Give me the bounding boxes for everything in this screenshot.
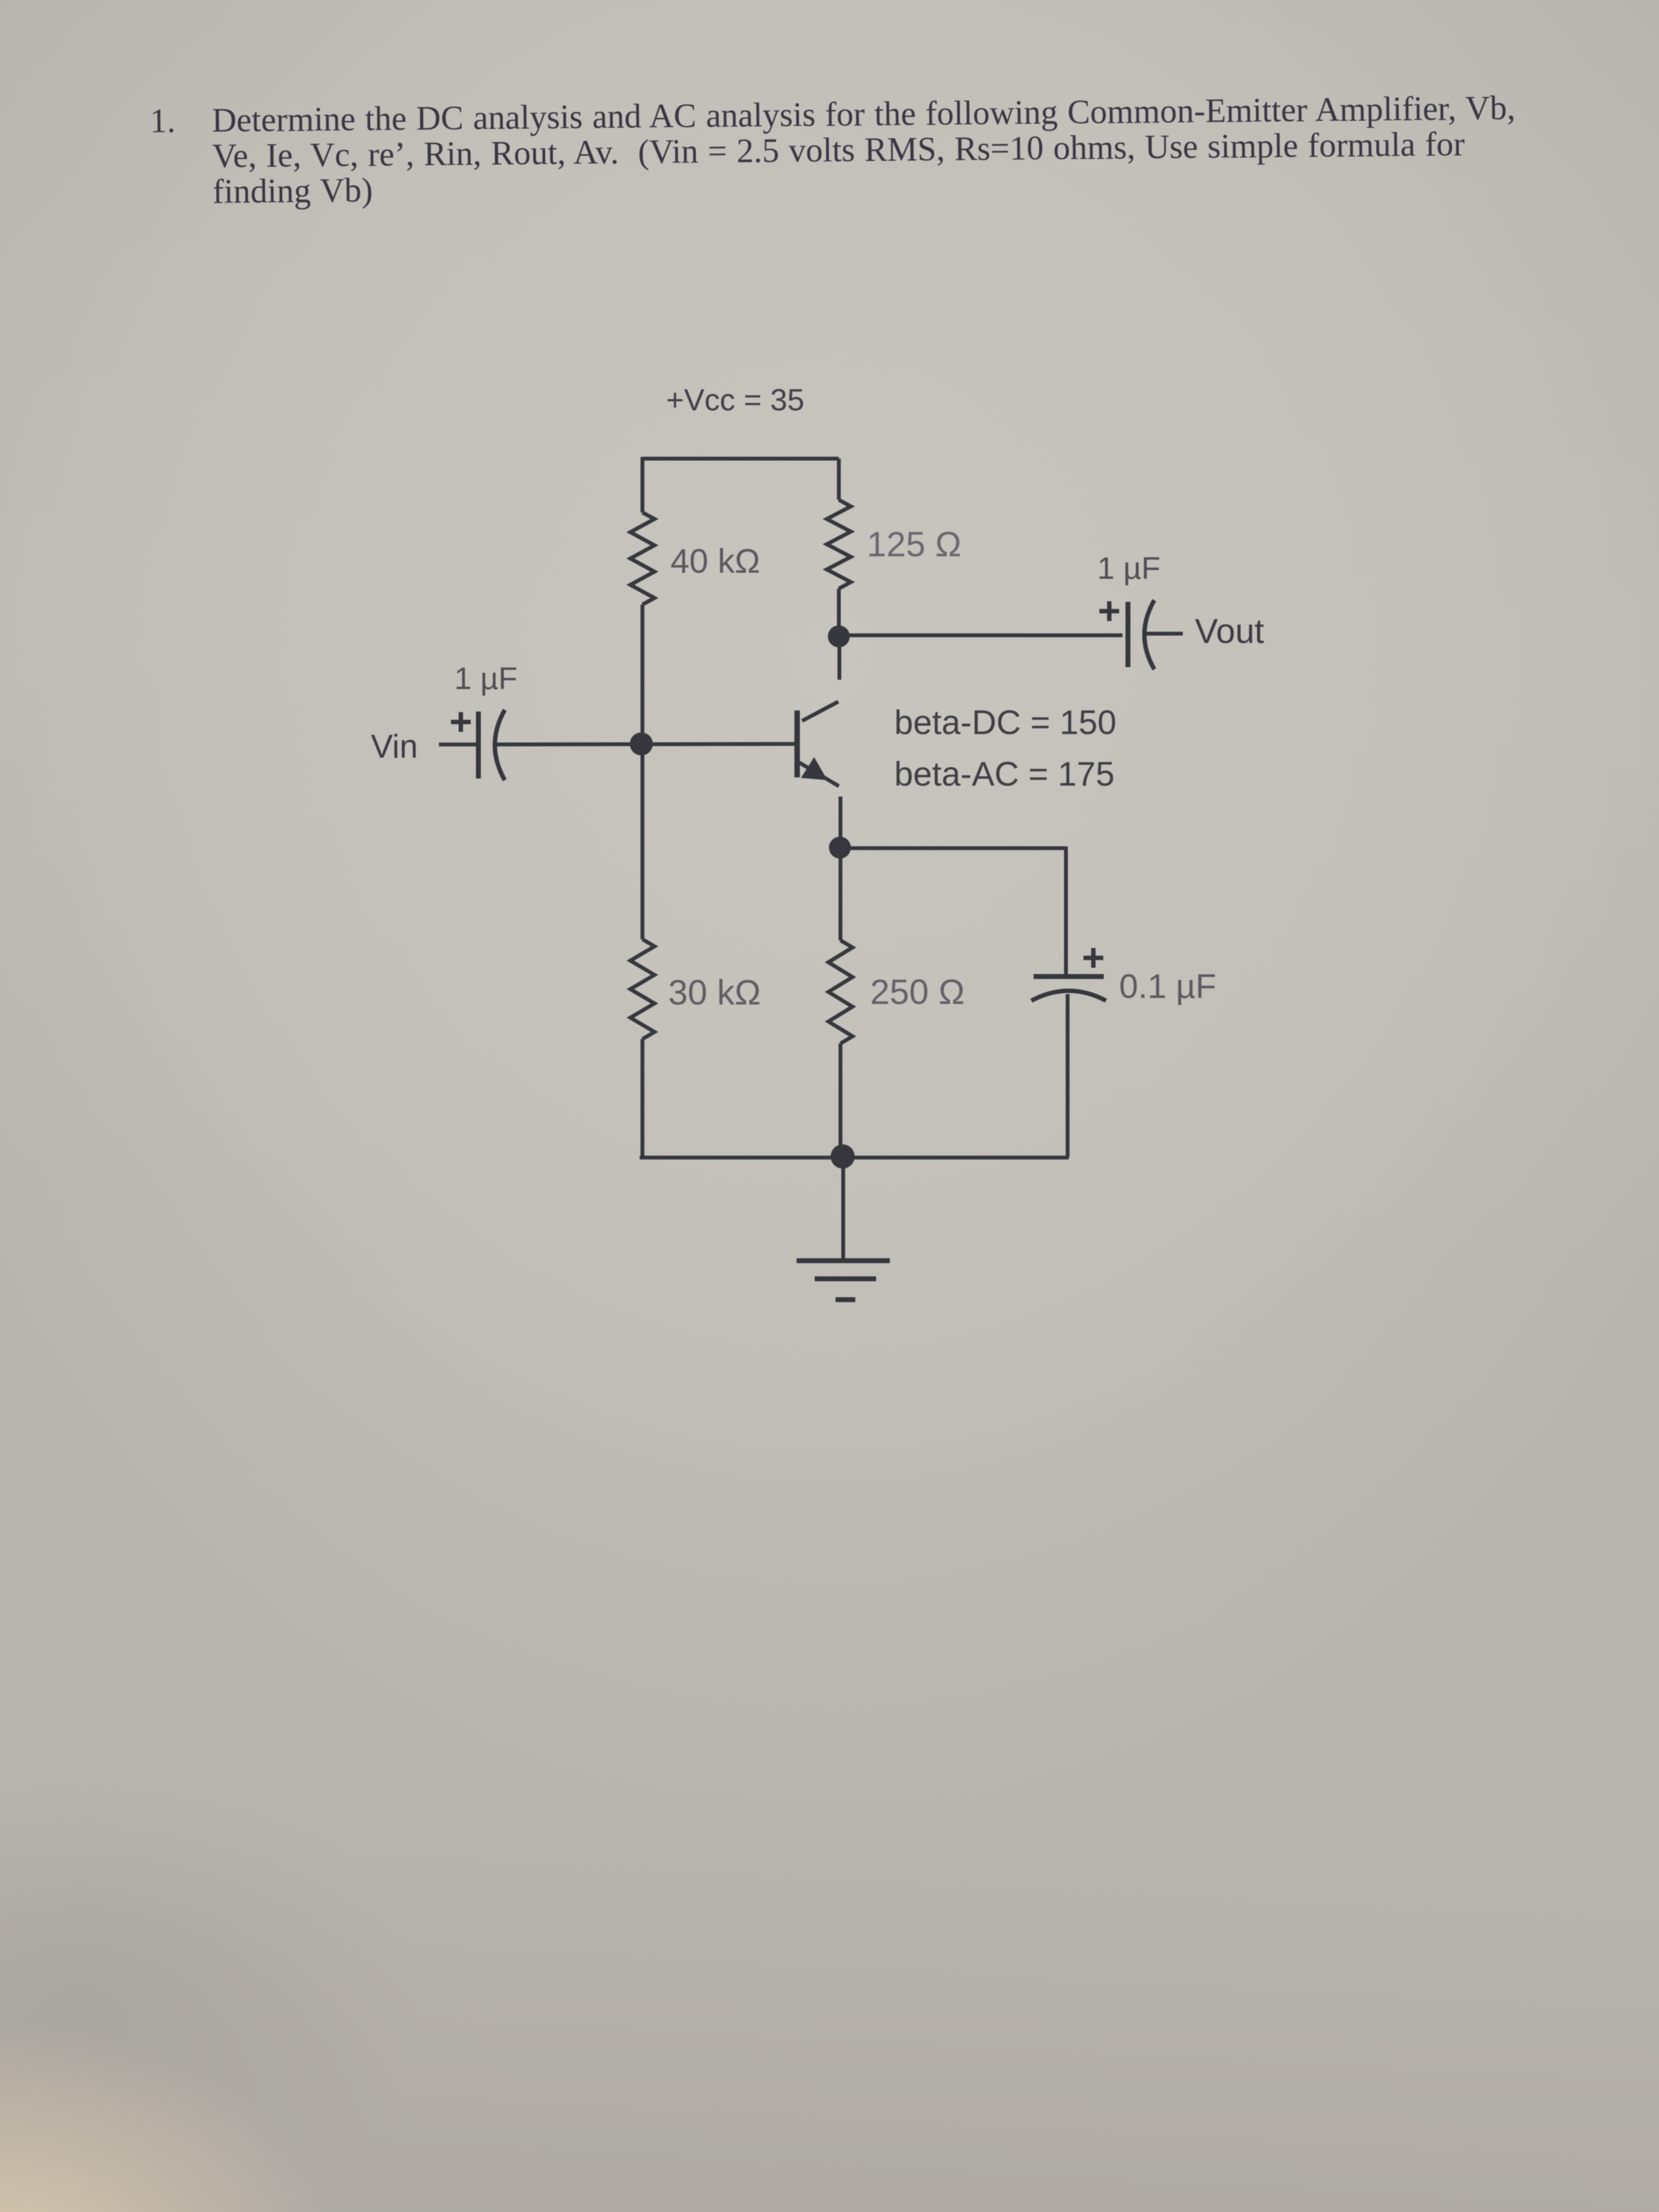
node: base junction (630, 732, 653, 755)
wire: bypass branch down to C3 (1064, 847, 1068, 977)
wire: R2 to bottom rail (641, 1039, 645, 1158)
wire: RC to collector node (837, 589, 841, 636)
wire: collector node to output cap (839, 634, 1122, 637)
resistor RC 125 Ohm zigzag (827, 500, 851, 589)
node: emitter junction (829, 837, 851, 859)
wire: +Vcc top rail (642, 457, 839, 461)
resistor R1 40 kOhm zigzag (630, 512, 654, 605)
capacitor C3 curved plate (1031, 991, 1106, 1001)
wire: bottom node to ground (842, 1156, 845, 1262)
wire: C3 to bottom rail (1066, 994, 1070, 1158)
wire: emitter node to bypass branch (840, 847, 1066, 850)
wire: collector node to transistor (838, 636, 842, 680)
wire: Vin to input cap (439, 743, 477, 747)
transistor Q1 collector lead (802, 702, 838, 721)
ground symbol (797, 1261, 890, 1300)
wire: emitter node to RE (839, 848, 843, 940)
transistor Q1 base bar (794, 710, 800, 777)
capacitor C1 plus sign (451, 712, 471, 732)
resistor RE 250 Ohm zigzag (828, 940, 853, 1043)
node: bottom rail junction (831, 1144, 855, 1169)
wire: R1 to base node (641, 605, 645, 744)
wire: Vcc rail to R1 (641, 457, 645, 512)
wire: bottom rail (640, 1156, 1069, 1160)
capacitor C2 curved plate (1144, 600, 1154, 669)
transistor Q1 emitter arrow (801, 757, 827, 780)
problem statement heading (150, 91, 1522, 211)
capacitor C1 straight plate (476, 712, 481, 778)
capacitor C2 plus sign (1099, 601, 1119, 621)
wire: RE to bottom rail (839, 1043, 843, 1158)
node: collector junction (828, 625, 850, 647)
capacitor C3 top plate (1034, 974, 1104, 979)
wire: output cap to Vout (1145, 632, 1183, 636)
capacitor C2 straight plate (1126, 602, 1131, 667)
resistor R2 30 kOhm zigzag (630, 939, 654, 1039)
capacitor C3 plus sign (1084, 948, 1103, 968)
wire: base wire from input cap to transistor (495, 744, 795, 744)
capacitor C1 curved plate (495, 710, 505, 780)
wire: emitter lead down to emitter node (839, 797, 843, 838)
transistor Q1 emitter lead (799, 763, 839, 786)
wire: Vcc rail to RC (837, 459, 841, 500)
wire: base node to R2 (641, 744, 645, 939)
